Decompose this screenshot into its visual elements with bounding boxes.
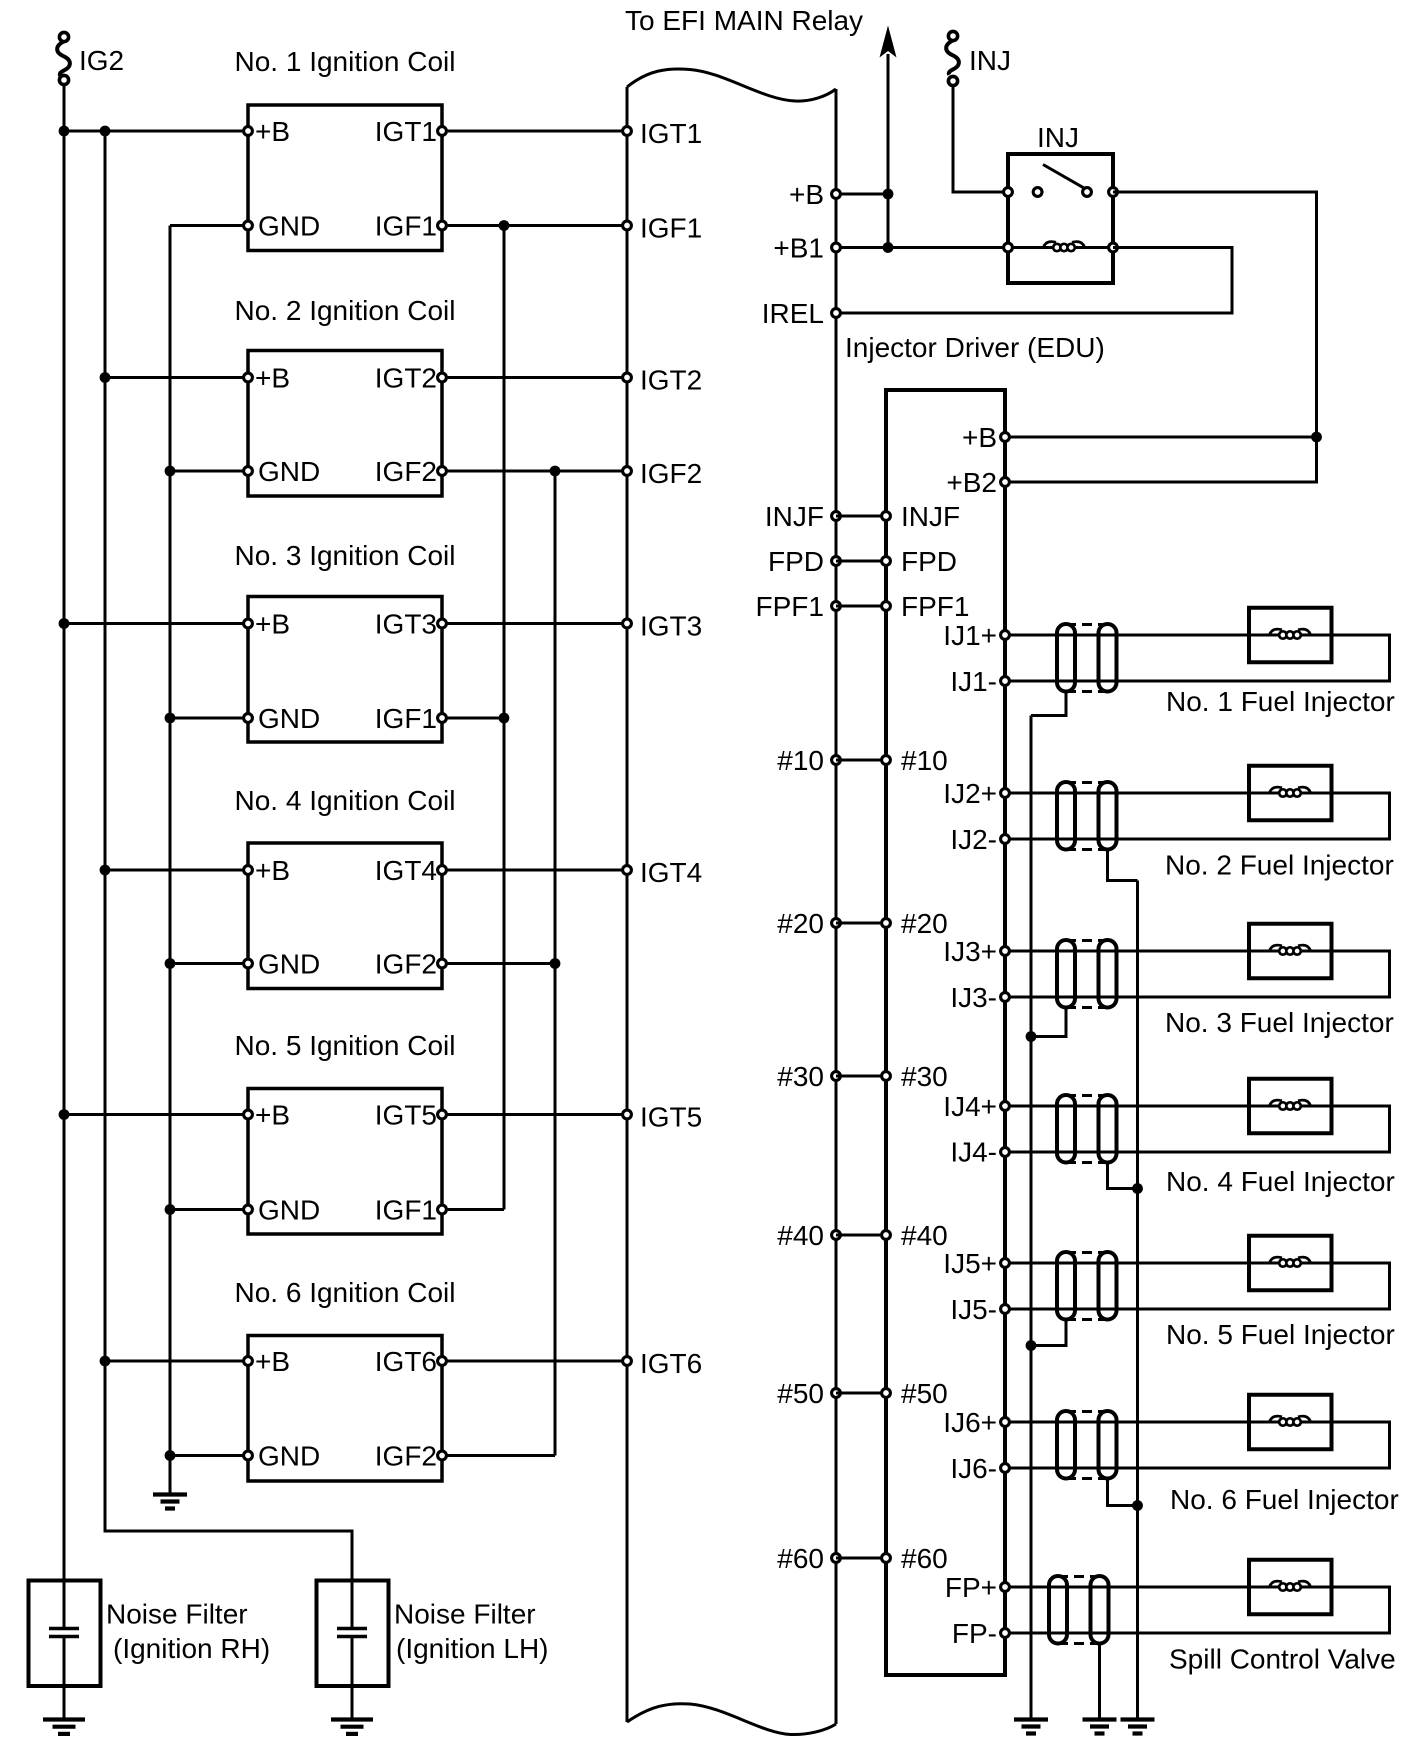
svg-text:IGF1: IGF1 [640,213,702,244]
svg-text:IGF2: IGF2 [640,458,702,489]
svg-text:No. 4 Fuel Injector: No. 4 Fuel Injector [1166,1166,1395,1197]
wire GND row 4 [170,962,248,965]
svg-text:No. 3 Fuel Injector: No. 3 Fuel Injector [1165,1007,1394,1038]
svg-text:IGT1: IGT1 [640,118,702,149]
shield drain FP [1098,1644,1101,1718]
fuel injector 2 circuit [1001,766,1390,844]
wire IGF2 row 4 [442,962,555,965]
svg-text:IGF2: IGF2 [375,456,437,487]
svg-text:IGF2: IGF2 [375,1441,437,1472]
svg-text:INJ: INJ [969,45,1011,76]
ignition coil 2 box [248,351,442,497]
ground noise filter 2 [331,1720,373,1734]
svg-text:#60: #60 [901,1543,948,1574]
wire +B row EDU [1005,436,1317,439]
fuel injector 5 circuit [1001,1236,1390,1314]
wire GND row 6 [170,1454,248,1457]
pin labels box 4 [255,855,437,980]
svg-text:FP+: FP+ [945,1572,997,1603]
wire IGT3 row [442,622,627,625]
relay switch contacts [1033,165,1091,197]
svg-text:FPF1: FPF1 [756,591,824,622]
svg-text:INJ: INJ [1037,122,1079,153]
shielded twisted pair 4 [1057,1095,1117,1163]
svg-text:INJF: INJF [901,501,960,532]
shielded twisted pair 2 [1057,782,1117,850]
svg-text:#50: #50 [777,1378,824,1409]
shielded twisted pair 3 [1057,940,1117,1008]
junction dot drain 6 [1132,1500,1143,1511]
svg-text:GND: GND [258,211,320,242]
svg-text:+B1: +B1 [773,233,824,264]
wire IGT2 row [442,376,627,379]
svg-text:Noise Filter: Noise Filter [106,1599,248,1630]
wire IGF1 row 3 [442,717,504,720]
junction dot drain 4 [1132,1183,1143,1194]
noise filter 1 box [29,1581,101,1687]
shield ground bus left (x=1031) [1030,716,1033,1718]
svg-text:IGT3: IGT3 [375,609,437,640]
EDU right pin labels [943,422,997,1649]
svg-text:IJ6+: IJ6+ [943,1407,997,1438]
svg-text:#10: #10 [901,745,948,776]
pin labels box 2 [255,363,437,488]
pin labels box 5 [255,1100,437,1226]
svg-text:IREL: IREL [762,298,824,329]
wire +B bus left (x=64) [63,80,66,1581]
junction dot arrow +B [883,189,894,200]
junction dots row 1 [59,126,70,137]
ground GND bus [153,1495,187,1509]
wire INJ connector to relay switch [953,81,1008,192]
svg-text:GND: GND [258,1441,320,1472]
svg-text:No. 1 Fuel Injector: No. 1 Fuel Injector [1166,686,1395,717]
svg-text:#20: #20 [901,908,948,939]
svg-text:IGT1: IGT1 [375,116,437,147]
EDU +B +B2 pins [1001,433,1010,487]
wire relay coil to IREL [836,248,1232,314]
shielded twisted pair 5 [1057,1252,1117,1320]
relay pins [1004,188,1118,252]
wire relay switch to +B2 [1005,192,1317,482]
svg-text:IJ4-: IJ4- [950,1137,997,1168]
svg-text:No. 2 Fuel Injector: No. 2 Fuel Injector [1165,850,1394,881]
ground shield bus left [1014,1720,1048,1734]
shield ground bus right (x=1137.5) [1136,881,1139,1718]
svg-text:#40: #40 [901,1220,948,1251]
svg-text:IGT6: IGT6 [640,1348,702,1379]
svg-text:IGF1: IGF1 [375,211,437,242]
svg-text:IGT5: IGT5 [640,1102,702,1133]
svg-text:FPF1: FPF1 [901,591,969,622]
svg-text:#60: #60 [777,1543,824,1574]
svg-text:Noise Filter: Noise Filter [394,1599,536,1630]
svg-text:IGT2: IGT2 [375,363,437,394]
wire IGT4 row [442,869,627,872]
wire IGT1 row [442,130,627,133]
connector INJ [946,31,959,85]
svg-text:#10: #10 [777,745,824,776]
wire through noise filter 2 [351,1581,354,1628]
fuel injector 6 circuit [1001,1395,1390,1473]
svg-text:IJ1-: IJ1- [950,666,997,697]
ground shield FP [1083,1720,1117,1734]
svg-text:IJ2-: IJ2- [950,824,997,855]
capacitor noise filter 1 [49,1629,79,1637]
wire IGT5 row [442,1113,627,1116]
shield drain 5 [1031,1320,1066,1346]
svg-text:GND: GND [258,1195,320,1226]
ECU band left pins IGT/IGF [623,127,632,1366]
svg-text:Injector Driver (EDU): Injector Driver (EDU) [845,332,1105,363]
svg-text:FP-: FP- [952,1618,997,1649]
ECU band right pin labels [756,179,824,1574]
spill control valve circuit [1001,1560,1390,1638]
svg-text:IJ4+: IJ4+ [943,1091,997,1122]
wire +B row 2 [105,376,248,379]
relay coil [1008,242,1113,252]
wire +B row 1 [64,130,248,133]
shield drain 1 [1031,692,1066,716]
junction dot drain 5 [1026,1340,1037,1351]
svg-text:#30: #30 [901,1061,948,1092]
svg-text:IGT2: IGT2 [640,365,702,396]
pin labels box 1 [255,116,437,242]
svg-text:GND: GND [258,703,320,734]
wire IGF2 bus (x=555) [554,471,557,1456]
svg-text:No. 3 Ignition Coil: No. 3 Ignition Coil [234,540,455,571]
wire +B1 ECU row to relay coil [836,246,1008,249]
svg-text:+B: +B [255,1346,290,1377]
EDU box [886,390,1005,1675]
svg-text:IGT4: IGT4 [640,857,702,888]
svg-text:No. 5 Fuel Injector: No. 5 Fuel Injector [1166,1319,1395,1350]
svg-text:IJ3-: IJ3- [950,982,997,1013]
wire through noise filter 1 [63,1581,66,1628]
svg-text:(Ignition LH): (Ignition LH) [396,1633,549,1664]
noise filter 2 box [317,1581,389,1687]
wire IGF1 row 1 [442,224,627,227]
svg-text:No. 6 Fuel Injector: No. 6 Fuel Injector [1170,1484,1399,1515]
svg-text:+B: +B [255,363,290,394]
EDU left pins [882,512,891,1563]
svg-text:No. 1 Ignition Coil: No. 1 Ignition Coil [234,46,455,77]
ECU band left line [626,87,629,1722]
svg-text:(Ignition RH): (Ignition RH) [113,1633,270,1664]
svg-text:IJ1+: IJ1+ [943,620,997,651]
wire +B ECU row [836,193,888,196]
svg-text:+B: +B [789,179,824,210]
svg-text:FPD: FPD [768,546,824,577]
svg-text:#20: #20 [777,908,824,939]
relay INJ box [1008,154,1113,283]
ECU band right line [835,89,838,1724]
shield drain 6 [1108,1479,1138,1506]
svg-text:INJF: INJF [765,501,824,532]
svg-text:#30: #30 [777,1061,824,1092]
svg-text:+B: +B [255,1100,290,1131]
capacitor noise filter 2 [337,1629,367,1637]
svg-text:IGF1: IGF1 [375,703,437,734]
arrow to EFI MAIN relay [880,26,897,248]
svg-text:+B: +B [962,422,997,453]
ignition coil 3 box [248,597,442,743]
svg-text:FPD: FPD [901,546,957,577]
shield drain 3 [1031,1008,1066,1037]
wire GND row 2 [170,470,248,473]
EDU left pin labels [901,501,969,1574]
wire IGF2 row 6 [442,1454,555,1457]
wire IGF2 row 2 [442,470,627,473]
ground shield bus right [1121,1720,1155,1734]
svg-text:No. 4 Ignition Coil: No. 4 Ignition Coil [234,785,455,816]
wire +B row 3 [64,622,248,625]
svg-text:IJ5+: IJ5+ [943,1248,997,1279]
shielded twisted pair 1 [1057,624,1117,692]
pin labels box 3 [255,609,437,735]
shield drain 4 [1108,1163,1138,1189]
svg-text:Spill Control Valve: Spill Control Valve [1169,1644,1396,1675]
wire IGF1 bus (x=504) [503,226,506,1210]
ECU band left pin labels [640,118,702,1379]
wire GND row 3 [170,717,248,720]
svg-text:GND: GND [258,949,320,980]
fuel injector 4 circuit [1001,1079,1390,1157]
svg-text:IJ3+: IJ3+ [943,936,997,967]
junction dot drain 3 [1026,1031,1037,1042]
svg-text:GND: GND [258,456,320,487]
svg-text:IG2: IG2 [79,45,124,76]
wire +B bus 2 (x=105) [105,131,352,1581]
junction dot +B tap [1311,432,1322,443]
svg-text:No. 5 Ignition Coil: No. 5 Ignition Coil [234,1030,455,1061]
svg-text:IJ2+: IJ2+ [943,778,997,809]
connector IG2 [57,32,70,84]
svg-text:+B: +B [255,116,290,147]
fuel injector 3 circuit [1001,924,1390,1002]
junction dots row 3 [59,618,70,629]
shielded twisted pair FP [1049,1576,1109,1644]
svg-text:#50: #50 [901,1378,948,1409]
ECU band top wave [627,69,836,101]
svg-text:IJ6-: IJ6- [950,1453,997,1484]
junction dots row 2 [100,372,111,383]
svg-text:IJ5-: IJ5- [950,1294,997,1325]
wire +B row 4 [105,869,248,872]
svg-text:No. 6 Ignition Coil: No. 6 Ignition Coil [234,1277,455,1308]
ignition coil 6 box [248,1336,442,1482]
svg-text:IGT6: IGT6 [375,1346,437,1377]
wire IGT6 row [442,1360,627,1363]
wire GND row 1 [170,224,248,227]
svg-text:IGT3: IGT3 [640,611,702,642]
wire +B row 5 [64,1113,248,1116]
ignition coil 1 box [248,105,442,251]
shield drain 2 [1108,850,1138,881]
ECU band right pins [832,190,841,1563]
svg-text:#40: #40 [777,1220,824,1251]
svg-text:IGT5: IGT5 [375,1100,437,1131]
ECU band bottom wave [627,1704,836,1735]
wire IGF1 row 5 [442,1208,504,1211]
svg-text:IGF2: IGF2 [375,949,437,980]
wires band to EDU [836,516,886,1558]
svg-text:+B: +B [255,855,290,886]
junction dots row 5 [59,1109,70,1120]
fuel injector 1 circuit [1001,608,1390,686]
shielded twisted pair 6 [1057,1411,1117,1479]
svg-text:IGF1: IGF1 [375,1195,437,1226]
ignition coil 5 box [248,1089,442,1235]
svg-text:To EFI MAIN Relay: To EFI MAIN Relay [625,5,863,36]
junction dots row 4 [100,865,111,876]
ignition coil 4 box [248,843,442,989]
svg-text:+B2: +B2 [946,467,997,498]
svg-text:IGT4: IGT4 [375,855,437,886]
junction dots row 6 [100,1356,111,1367]
wire +B row 6 [105,1360,248,1363]
svg-text:+B: +B [255,609,290,640]
wire GND bus (x=170) [169,226,172,1495]
ground noise filter 1 [43,1720,85,1734]
junction dot arrow +B1 [883,242,894,253]
coil box pin circles and labels [244,127,447,1460]
svg-text:No. 2 Ignition Coil: No. 2 Ignition Coil [234,295,455,326]
wire GND row 5 [170,1208,248,1211]
pin labels box 6 [255,1346,437,1472]
